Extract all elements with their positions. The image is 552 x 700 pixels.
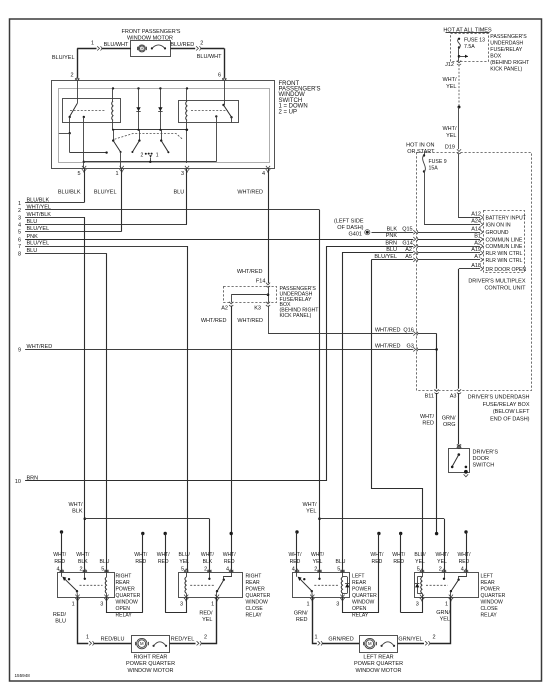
svg-text:YEL: YEL — [179, 559, 189, 565]
svg-text:POWER: POWER — [481, 587, 501, 593]
svg-text:OPEN: OPEN — [116, 606, 131, 612]
svg-text:BLK: BLK — [203, 559, 213, 565]
svg-text:POWER: POWER — [246, 587, 266, 593]
svg-text:A2: A2 — [474, 240, 481, 246]
svg-text:1: 1 — [86, 634, 89, 640]
svg-text:RED: RED — [135, 559, 146, 565]
svg-text:A3: A3 — [450, 394, 457, 400]
svg-text:WHT/: WHT/ — [302, 502, 317, 508]
svg-text:YEL: YEL — [415, 559, 425, 565]
svg-text:RELAY: RELAY — [246, 613, 263, 619]
svg-text:BLU: BLU — [55, 619, 66, 625]
svg-text:8: 8 — [18, 251, 21, 257]
svg-text:GRN/: GRN/ — [442, 416, 456, 422]
svg-text:OF DASH): OF DASH) — [337, 225, 363, 231]
svg-text:WHT/RED: WHT/RED — [237, 189, 263, 195]
svg-text:WHT/RED: WHT/RED — [27, 344, 53, 350]
svg-text:4: 4 — [226, 567, 229, 573]
svg-text:WINDOW MOTOR: WINDOW MOTOR — [127, 668, 173, 674]
svg-text:WHT/: WHT/ — [457, 552, 471, 558]
svg-text:4: 4 — [461, 567, 464, 573]
svg-text:BLK: BLK — [72, 508, 83, 514]
svg-text:DR DOOR OPEN: DR DOOR OPEN — [486, 267, 527, 273]
svg-text:YEL: YEL — [306, 508, 316, 514]
svg-text:5: 5 — [181, 567, 184, 573]
svg-text:WHT/RED: WHT/RED — [237, 269, 263, 275]
svg-text:DRIVER'S UNDERDASH: DRIVER'S UNDERDASH — [468, 395, 530, 401]
svg-text:F14: F14 — [256, 279, 265, 285]
svg-text:RED: RED — [224, 559, 235, 565]
svg-text:GRN/RED: GRN/RED — [328, 637, 353, 643]
svg-text:2: 2 — [314, 567, 317, 573]
svg-text:G3: G3 — [406, 343, 413, 349]
svg-text:PASSENGER'S: PASSENGER'S — [490, 34, 527, 40]
svg-text:RED: RED — [296, 617, 308, 623]
svg-text:D19: D19 — [445, 145, 455, 151]
svg-text:BOX: BOX — [490, 53, 501, 59]
svg-text:GRN/YEL: GRN/YEL — [398, 637, 422, 643]
svg-text:WHT/: WHT/ — [223, 552, 237, 558]
svg-text:RED: RED — [372, 559, 383, 565]
svg-text:1: 1 — [115, 171, 118, 177]
svg-text:RIGHT: RIGHT — [246, 574, 262, 580]
svg-text:DOOR: DOOR — [473, 456, 490, 462]
svg-text:WINDOW: WINDOW — [246, 600, 269, 606]
svg-text:10: 10 — [15, 479, 21, 485]
svg-text:5: 5 — [18, 230, 21, 236]
svg-text:A12: A12 — [471, 212, 481, 218]
svg-text:1: 1 — [91, 41, 94, 47]
svg-text:1: 1 — [211, 601, 214, 607]
svg-text:BLU: BLU — [173, 189, 184, 195]
svg-text:5: 5 — [101, 567, 104, 573]
svg-text:WHT/RED: WHT/RED — [375, 343, 401, 349]
svg-text:155948: 155948 — [15, 673, 31, 678]
svg-text:5: 5 — [337, 567, 340, 573]
svg-text:CONTROL UNIT: CONTROL UNIT — [484, 286, 526, 292]
svg-text:BLU/YEL: BLU/YEL — [52, 55, 75, 61]
svg-text:7: 7 — [18, 244, 21, 250]
svg-text:15A: 15A — [429, 166, 439, 172]
svg-text:COMMUN LINE: COMMUN LINE — [486, 244, 523, 250]
svg-text:KICK PANEL): KICK PANEL) — [490, 66, 522, 72]
svg-text:A2: A2 — [221, 306, 228, 312]
svg-text:Q16: Q16 — [403, 328, 413, 334]
svg-text:RLR WIN CTRL: RLR WIN CTRL — [486, 251, 523, 257]
svg-text:2: 2 — [204, 567, 207, 573]
svg-text:J12: J12 — [445, 62, 454, 68]
svg-text:5: 5 — [77, 171, 80, 177]
svg-text:3: 3 — [100, 601, 103, 607]
svg-text:A14: A14 — [471, 226, 481, 232]
svg-text:POWER QUARTER: POWER QUARTER — [126, 661, 175, 667]
svg-text:1: 1 — [72, 601, 75, 607]
svg-text:WHT/: WHT/ — [311, 552, 325, 558]
svg-text:WHT/: WHT/ — [53, 552, 67, 558]
svg-text:WHT/YEL: WHT/YEL — [27, 205, 51, 211]
svg-text:BLU/YEL: BLU/YEL — [94, 189, 117, 195]
svg-text:REAR: REAR — [352, 580, 366, 586]
svg-text:4: 4 — [18, 223, 21, 229]
svg-text:WHT/RED: WHT/RED — [375, 328, 401, 334]
svg-text:G401: G401 — [349, 232, 362, 238]
svg-text:POWER: POWER — [352, 587, 372, 593]
svg-text:DRIVER'S MULTIPLEX: DRIVER'S MULTIPLEX — [468, 279, 526, 285]
svg-text:BLU/: BLU/ — [179, 552, 191, 558]
svg-text:CLOSE: CLOSE — [246, 606, 264, 612]
svg-text:1: 1 — [306, 601, 309, 607]
svg-text:WHT/: WHT/ — [157, 552, 171, 558]
svg-text:POWER: POWER — [116, 587, 136, 593]
svg-text:FUSE/RELAY: FUSE/RELAY — [490, 47, 522, 53]
svg-text:(BEHIND RIGHT: (BEHIND RIGHT — [490, 60, 530, 66]
svg-text:RED/YEL: RED/YEL — [171, 637, 195, 643]
svg-text:GRN/: GRN/ — [436, 610, 450, 616]
svg-text:WHT/: WHT/ — [134, 552, 148, 558]
svg-text:A2: A2 — [405, 247, 412, 253]
svg-text:RED: RED — [290, 559, 301, 565]
svg-text:IGN ON IN: IGN ON IN — [486, 223, 511, 229]
svg-text:BLU: BLU — [100, 559, 110, 565]
svg-text:GRN/: GRN/ — [294, 610, 308, 616]
svg-text:LEFT: LEFT — [352, 574, 364, 580]
svg-text:WHT/: WHT/ — [68, 502, 83, 508]
svg-text:WINDOW MOTOR: WINDOW MOTOR — [355, 668, 401, 674]
svg-text:RELAY: RELAY — [481, 613, 498, 619]
svg-text:BLK: BLK — [387, 226, 398, 232]
svg-text:QUARTER: QUARTER — [481, 593, 506, 599]
svg-text:RLR WIN CTRL: RLR WIN CTRL — [486, 258, 523, 264]
svg-text:A24: A24 — [471, 219, 481, 225]
svg-text:WHT/: WHT/ — [201, 552, 215, 558]
svg-text:2: 2 — [141, 153, 144, 159]
svg-text:WINDOW: WINDOW — [352, 600, 375, 606]
svg-text:END OF DASH): END OF DASH) — [490, 416, 530, 422]
svg-text:BLU/BLK: BLU/BLK — [27, 197, 50, 203]
svg-text:QUARTER: QUARTER — [246, 593, 271, 599]
svg-text:G14: G14 — [402, 240, 412, 246]
svg-text:RELAY: RELAY — [116, 613, 133, 619]
svg-text:YEL: YEL — [446, 84, 456, 90]
svg-text:5: 5 — [417, 567, 420, 573]
svg-text:FRONT PASSENGER'S: FRONT PASSENGER'S — [122, 29, 181, 35]
svg-text:BLU/YEL: BLU/YEL — [374, 254, 397, 260]
svg-text:WHT/: WHT/ — [76, 552, 90, 558]
svg-text:PNK: PNK — [386, 233, 398, 239]
svg-text:3: 3 — [181, 171, 184, 177]
svg-text:SWITCH: SWITCH — [473, 463, 495, 469]
svg-text:RED: RED — [393, 559, 404, 565]
svg-text:DRIVER'S: DRIVER'S — [473, 450, 499, 456]
svg-text:3: 3 — [18, 215, 21, 221]
svg-text:2 = UP: 2 = UP — [279, 109, 298, 115]
svg-text:GROUND: GROUND — [486, 230, 509, 236]
svg-text:REAR: REAR — [116, 580, 130, 586]
svg-text:3: 3 — [336, 601, 339, 607]
svg-text:7.5A: 7.5A — [464, 44, 475, 50]
svg-text:1: 1 — [18, 201, 21, 207]
svg-text:WHT/: WHT/ — [420, 414, 435, 420]
svg-text:HOT IN ON: HOT IN ON — [406, 143, 434, 149]
svg-text:BLU/YEL: BLU/YEL — [27, 226, 50, 232]
svg-text:4: 4 — [262, 171, 265, 177]
svg-text:2: 2 — [439, 567, 442, 573]
svg-text:YEL: YEL — [313, 559, 323, 565]
svg-text:BATTERY INPUT: BATTERY INPUT — [486, 216, 527, 222]
svg-text:CLOSE: CLOSE — [481, 606, 499, 612]
svg-text:WHT/: WHT/ — [442, 77, 457, 83]
svg-text:FUSE 13: FUSE 13 — [464, 38, 485, 44]
svg-text:OR START: OR START — [407, 149, 435, 155]
svg-text:PNK: PNK — [27, 234, 39, 240]
svg-text:RED: RED — [422, 421, 434, 427]
svg-text:M: M — [368, 641, 372, 646]
svg-text:1: 1 — [156, 153, 159, 159]
svg-text:1: 1 — [445, 601, 448, 607]
svg-text:RED/: RED/ — [53, 612, 67, 618]
svg-text:K3: K3 — [254, 306, 261, 312]
svg-text:BLK: BLK — [78, 559, 88, 565]
svg-text:B11: B11 — [425, 394, 434, 400]
svg-text:M: M — [140, 641, 144, 646]
svg-text:REAR: REAR — [481, 580, 495, 586]
svg-text:RED/BLU: RED/BLU — [101, 637, 125, 643]
svg-text:2: 2 — [70, 73, 73, 79]
svg-text:BLU/WHT: BLU/WHT — [104, 42, 129, 48]
svg-text:QUARTER: QUARTER — [352, 593, 377, 599]
svg-text:BLU/BLK: BLU/BLK — [58, 189, 81, 195]
svg-text:RED/: RED/ — [199, 610, 213, 616]
svg-text:6: 6 — [218, 73, 221, 79]
svg-text:FUSE/RELAY BOX: FUSE/RELAY BOX — [483, 402, 530, 408]
svg-text:UNDERDASH: UNDERDASH — [490, 40, 523, 46]
svg-text:4: 4 — [56, 567, 59, 573]
svg-text:REAR: REAR — [246, 580, 260, 586]
svg-text:WHT/: WHT/ — [392, 552, 406, 558]
svg-text:WHT/: WHT/ — [435, 552, 449, 558]
svg-text:RIGHT REAR: RIGHT REAR — [134, 655, 168, 661]
svg-text:YEL: YEL — [446, 133, 456, 139]
svg-text:3: 3 — [416, 601, 419, 607]
svg-text:ORG: ORG — [443, 422, 456, 428]
svg-text:2: 2 — [433, 634, 436, 640]
svg-text:1: 1 — [314, 634, 317, 640]
svg-text:RED: RED — [158, 559, 169, 565]
svg-text:(LEFT SIDE: (LEFT SIDE — [334, 218, 364, 224]
svg-text:Q15: Q15 — [402, 226, 412, 232]
svg-text:RIGHT: RIGHT — [116, 574, 132, 580]
svg-text:BRN: BRN — [385, 240, 397, 246]
svg-text:A5: A5 — [405, 254, 412, 260]
svg-text:YEL: YEL — [437, 559, 447, 565]
svg-text:WHT/: WHT/ — [442, 126, 457, 132]
svg-text:WHT/: WHT/ — [288, 552, 302, 558]
svg-text:BLU: BLU — [27, 219, 38, 225]
svg-text:OPEN: OPEN — [352, 606, 367, 612]
svg-text:4: 4 — [292, 567, 295, 573]
svg-text:WHT/RED: WHT/RED — [201, 318, 227, 324]
svg-text:BLU: BLU — [386, 247, 397, 253]
svg-text:KICK PANEL): KICK PANEL) — [280, 313, 312, 319]
svg-text:(BELOW LEFT: (BELOW LEFT — [493, 409, 530, 415]
svg-text:2: 2 — [204, 634, 207, 640]
svg-text:LEFT REAR: LEFT REAR — [363, 655, 393, 661]
svg-text:9: 9 — [18, 348, 21, 354]
svg-text:WHT/RED: WHT/RED — [237, 318, 263, 324]
svg-text:B1: B1 — [474, 234, 481, 240]
svg-text:YEL: YEL — [202, 617, 212, 623]
svg-text:RED: RED — [459, 559, 470, 565]
svg-text:RELAY: RELAY — [352, 613, 369, 619]
svg-text:BLU/: BLU/ — [414, 552, 426, 558]
svg-text:WHT/BLK: WHT/BLK — [27, 212, 52, 218]
svg-text:BLU/WHT: BLU/WHT — [197, 54, 222, 60]
svg-text:BLU/YEL: BLU/YEL — [27, 241, 50, 247]
svg-text:2: 2 — [200, 41, 203, 47]
svg-text:BRN: BRN — [27, 476, 39, 482]
svg-text:RED: RED — [54, 559, 65, 565]
svg-text:WINDOW: WINDOW — [116, 600, 139, 606]
svg-text:6: 6 — [18, 237, 21, 243]
svg-text:BLU/RED: BLU/RED — [170, 42, 194, 48]
svg-text:BLU: BLU — [336, 559, 346, 565]
svg-text:3: 3 — [180, 601, 183, 607]
svg-text:QUARTER: QUARTER — [116, 593, 141, 599]
svg-text:POWER QUARTER: POWER QUARTER — [354, 661, 403, 667]
svg-text:FUSE 9: FUSE 9 — [429, 159, 447, 165]
svg-text:2: 2 — [18, 208, 21, 214]
svg-text:LEFT: LEFT — [481, 574, 493, 580]
svg-text:WHT/: WHT/ — [370, 552, 384, 558]
svg-text:2: 2 — [80, 567, 83, 573]
svg-text:COMMUN LINE: COMMUN LINE — [486, 237, 523, 243]
svg-text:YEL: YEL — [440, 616, 450, 622]
svg-text:BLU: BLU — [27, 248, 38, 254]
svg-text:WINDOW: WINDOW — [481, 600, 504, 606]
